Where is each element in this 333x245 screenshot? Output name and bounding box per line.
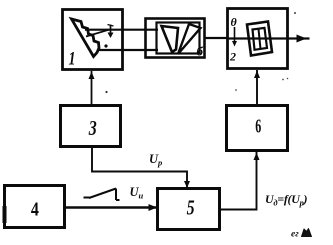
svg-text:ег: ег <box>291 230 299 240</box>
beam line block b -> block 2 <box>204 37 228 39</box>
sawtooth symbol <box>84 189 120 201</box>
block 4 <box>5 186 65 228</box>
svg-text:4: 4 <box>31 199 39 221</box>
block b inner rect <box>157 23 200 54</box>
svg-text:θ: θ <box>231 15 238 29</box>
block 3 <box>61 106 121 147</box>
wedge beam line in block 1 <box>86 30 109 37</box>
block 6 <box>227 106 288 151</box>
svg-text:3: 3 <box>88 116 97 140</box>
crystal inner parallelogram <box>253 28 268 50</box>
beam top line block1 -> block b <box>85 29 158 31</box>
svg-text:6: 6 <box>255 116 261 138</box>
block b (prism pair) outer <box>146 19 205 58</box>
block 1 (light source with mirror) <box>63 10 123 70</box>
wire block5 -> block6 with up arrow <box>220 152 257 210</box>
left prism <box>162 26 179 52</box>
small down arrow in block 1 <box>110 25 112 35</box>
block 5 <box>158 189 220 230</box>
wire block4 -> block5 with right arrow <box>65 206 157 208</box>
crystal middle divider <box>259 29 261 49</box>
specks left of block6 <box>282 79 284 81</box>
wire block3 -> block5 (Up) <box>92 147 187 187</box>
svg-text:2: 2 <box>229 50 236 64</box>
speck above block2 <box>294 12 296 14</box>
svg-text:б: б <box>197 44 204 59</box>
speck near block1 below <box>105 91 107 93</box>
svg-text:5: 5 <box>187 196 195 220</box>
block 2 (modulator crystal) <box>228 9 288 69</box>
right prism <box>178 24 201 54</box>
dot under arrow <box>104 44 107 47</box>
crystal outer parallelogram <box>247 22 272 56</box>
wire block6 -> block2 with up arrow <box>256 70 258 105</box>
beam bottom line block1 -> block b <box>97 49 158 51</box>
wire block3 -> block1 with up arrow <box>91 71 93 105</box>
mirror staircase band inside block 1 <box>72 19 100 57</box>
beam line through block 2 with exit arrow <box>228 37 310 39</box>
svg-text:1: 1 <box>69 49 76 70</box>
